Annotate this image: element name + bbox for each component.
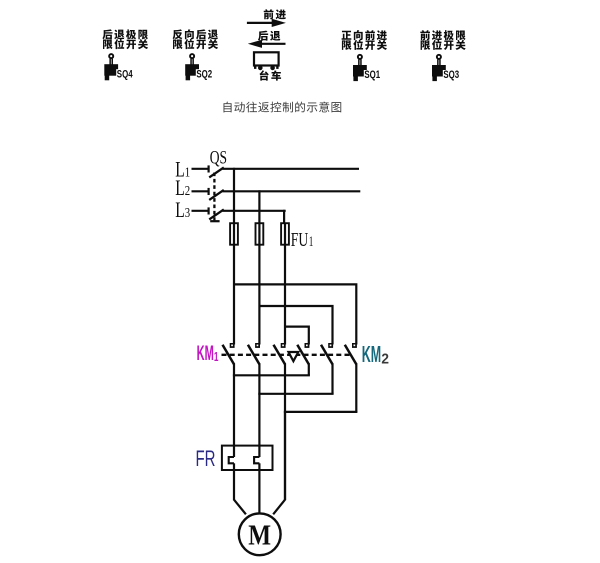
QS fixed contact tick pole 2 [208,188,210,195]
wire KM2 contact5 output crossover [258,393,333,395]
cart 台车 icon [254,52,279,70]
label text 前进极限限位开关 [420,30,465,50]
QS linkage dashed line [210,173,219,222]
contactor KM2 main contact 3 [345,343,357,364]
wire L3 to QS [192,210,209,212]
svg-text:2: 2 [185,184,190,199]
svg-text:SQ3: SQ3 [443,69,459,81]
svg-text:1: 1 [214,349,219,364]
wire KM2 contact6 output crossover [284,411,358,413]
limit switch SQ3 icon [432,55,446,81]
svg-text:1: 1 [309,234,314,250]
svg-text:QS: QS [210,148,227,168]
limit switch SQ2 icon [185,54,199,80]
KM1-KM2 interlock dashed line [222,354,351,356]
wire below KM2 contact 2 [331,363,333,394]
wire phase1 feed to KM2 contact6 [234,284,356,344]
label text 正向前进限位开关 [342,30,387,50]
fuse 2 FU1 [256,223,264,245]
wire drop phase3 [283,210,285,224]
backward arrow [248,40,286,48]
label SQ2 [196,69,213,78]
wire L1 bus [223,168,360,170]
QS fixed contact tick pole 1 [208,165,210,172]
wire L2 to QS [192,190,209,192]
QS blade pole 3 [209,209,224,219]
wire phase1 FU to contact [233,245,235,345]
wire L2 bus [223,190,361,192]
label 前进 (forward) [264,9,286,19]
label 后退 (backward) [258,31,280,41]
wire phase2 below heater to motor [258,463,260,513]
fuse 3 FU1 [281,223,289,245]
wire below KM2 contact 3 [355,363,357,412]
svg-text:M: M [248,521,271,552]
limit switch SQ4 icon [104,54,118,80]
label 台车 (cart) [260,70,282,80]
wire phase2 FU to contact [258,245,260,345]
wire KM2 contact4 output crossover [233,374,310,376]
fuse 1 FU1 [230,223,238,245]
contactor KM1 main contact 1 [223,343,235,364]
label text 后退极限限位开关 [102,29,148,49]
wire phase3 to motor [284,411,286,500]
contactor KM2 main contact 2 [321,343,333,364]
wire below KM1 contact 1 [233,363,235,457]
interlock triangle marker [289,352,299,361]
thermal relay FR box [222,446,273,470]
wire phase3 FU to contact [284,245,286,345]
svg-text:L: L [175,197,185,222]
label SQ1 [364,70,381,79]
wire phase1 below heater to motor [233,463,235,500]
QS blade pole 1 [209,167,224,177]
motor M circle [239,513,281,555]
wire below KM2 contact 1 [308,363,310,375]
svg-text:3: 3 [185,206,190,221]
svg-text:1: 1 [185,166,190,181]
wire below KM1 contact 2 [258,363,260,457]
svg-text:SQ4: SQ4 [117,68,133,80]
QS fixed contact tick pole 3 [208,207,210,214]
wire drop phase1 [233,168,235,224]
label text 反向后退限位开关 [173,29,218,49]
label SQ4 [116,69,133,78]
svg-text:2: 2 [381,352,389,368]
FR heater element phase1 [229,457,234,463]
contactor KM2 main contact 1 [297,343,309,364]
svg-text:SQ2: SQ2 [196,68,212,80]
QS blade pole 2 [209,190,224,200]
wire phase2 feed to KM2 contact5 [259,306,332,345]
contactor KM1 main contact 3 [274,343,286,364]
svg-text:SQ1: SQ1 [364,69,380,81]
wire L3 bus [223,210,286,212]
svg-text:FU: FU [291,230,308,251]
svg-text:KM: KM [362,341,381,367]
FR heater element phase2 [254,457,259,463]
wire drop phase2 [258,190,260,224]
wire L1 to QS [192,168,209,170]
wire phase3 feed to KM2 contact4 [285,327,309,345]
label SQ3 [443,70,460,79]
svg-text:KM: KM [197,342,214,365]
contactor KM1 main contact 2 [248,343,260,364]
limit switch SQ1 icon [353,55,367,81]
caption 自动往返控制的示意图 [224,102,342,113]
wire below KM1 contact 3 [284,363,286,500]
forward arrow [247,19,286,27]
svg-text:FR: FR [196,446,216,471]
